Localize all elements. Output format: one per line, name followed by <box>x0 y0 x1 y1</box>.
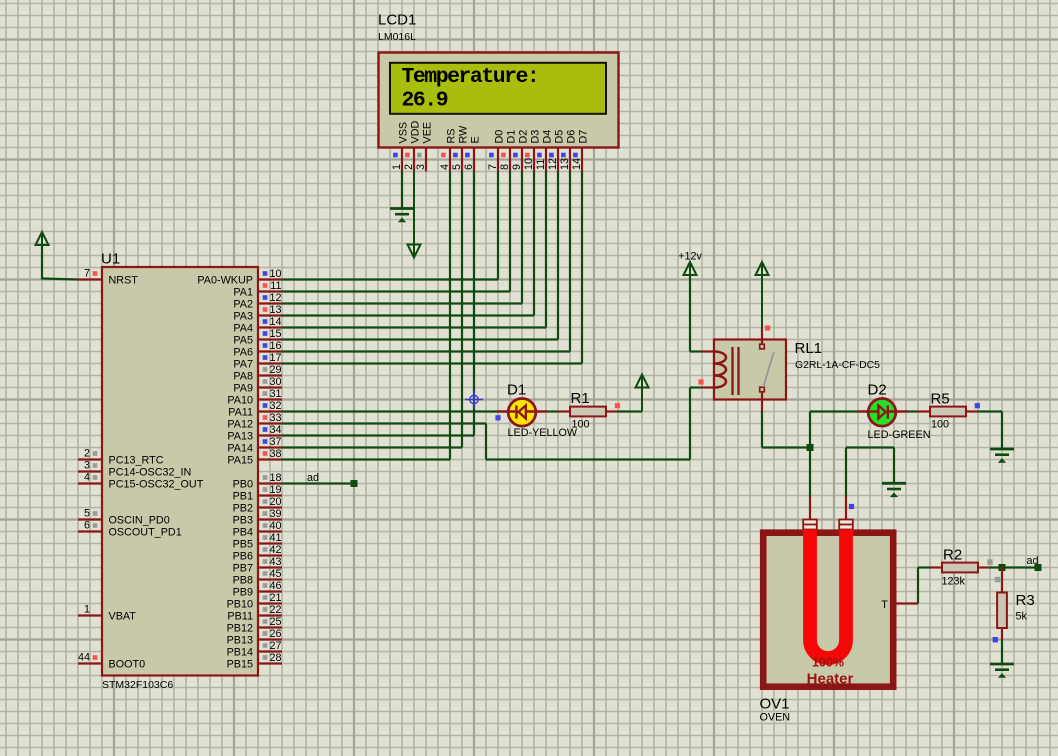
svg-text:1: 1 <box>391 164 403 170</box>
U1 pin 7 state square <box>93 271 98 276</box>
svg-text:PA6: PA6 <box>233 347 253 359</box>
U1 pin 18 state square <box>263 475 268 480</box>
LCD pin stub 7 <box>497 148 499 172</box>
svg-text:D1: D1 <box>505 130 517 144</box>
svg-text:29: 29 <box>269 364 281 376</box>
svg-text:R5: R5 <box>931 391 950 408</box>
svg-text:PA12: PA12 <box>227 419 253 431</box>
wire LCD RS to PA15 <box>449 172 451 460</box>
U1 pin 2 state square <box>93 451 98 456</box>
svg-text:PB7: PB7 <box>233 563 253 575</box>
U1 pin stub 18 (PB0) <box>258 482 282 484</box>
svg-text:VSS: VSS <box>397 122 409 144</box>
U1 pin 22 state square <box>263 607 268 612</box>
LCD pin 8 state square <box>501 153 506 158</box>
svg-text:17: 17 <box>269 352 281 364</box>
power terminal (NRST) <box>41 233 43 280</box>
svg-text:+12v: +12v <box>678 251 702 263</box>
svg-text:40: 40 <box>269 520 281 532</box>
svg-text:13: 13 <box>269 304 281 316</box>
R2 state squares <box>987 559 992 564</box>
LCD pin 2 state square <box>405 153 410 158</box>
svg-text:OV1: OV1 <box>760 696 790 713</box>
svg-text:19: 19 <box>269 484 281 496</box>
power terminal +12v <box>689 263 691 352</box>
U1 pin 6 state square <box>93 523 98 528</box>
svg-text:PA0-WKUP: PA0-WKUP <box>197 275 253 287</box>
svg-text:D5: D5 <box>553 130 565 144</box>
svg-text:14: 14 <box>269 316 281 328</box>
svg-text:5: 5 <box>84 508 90 520</box>
svg-text:PA4: PA4 <box>233 323 253 335</box>
junction dot <box>807 444 814 451</box>
LED D1 <box>508 399 536 427</box>
LCD pin stub 13 <box>569 148 571 172</box>
origin marker <box>465 391 483 409</box>
LCD pin stub 1 <box>401 148 403 172</box>
LCD pin 6 state square <box>465 153 470 158</box>
RL1 switch top pin <box>761 328 763 345</box>
svg-text:18: 18 <box>269 472 281 484</box>
U1 pin 4 state square <box>93 475 98 480</box>
svg-text:R3: R3 <box>1016 592 1035 609</box>
svg-text:27: 27 <box>269 640 281 652</box>
U1 pin 26 state square <box>263 631 268 636</box>
U1 pin stub 7 (NRST) <box>78 278 102 280</box>
svg-text:D0: D0 <box>493 130 505 144</box>
U1 pin stub 17 (PA7) <box>258 362 282 364</box>
svg-text:21: 21 <box>269 592 281 604</box>
resistor R5 <box>918 410 930 412</box>
svg-text:LCD1: LCD1 <box>378 12 416 29</box>
svg-text:D4: D4 <box>541 130 553 144</box>
svg-text:OVEN: OVEN <box>760 712 791 724</box>
U1 pin stub 25 (PB12) <box>258 626 282 628</box>
U1 pin 19 state square <box>263 487 268 492</box>
microcontroller U1 body <box>102 267 258 676</box>
svg-text:7: 7 <box>84 268 90 280</box>
relay RL1 body <box>714 340 786 400</box>
wire R1 to power <box>618 410 642 412</box>
U1 pin stub 10 (PA0-WKUP) <box>258 278 282 280</box>
U1 pin stub 16 (PA6) <box>258 350 282 352</box>
svg-text:VDD: VDD <box>409 121 421 144</box>
RL1 switch lever <box>763 352 774 387</box>
svg-text:4: 4 <box>439 164 451 170</box>
ground (oven pin 2) <box>882 482 906 485</box>
U1 pin stub 44 (BOOT0) <box>78 662 102 664</box>
wire PB0 to ad terminal <box>282 482 354 484</box>
LCD pin stub 6 <box>473 148 475 172</box>
svg-text:100: 100 <box>931 419 949 431</box>
LCD pin stub 14 <box>581 148 583 172</box>
U1 pin stub 13 (PA3) <box>258 314 282 316</box>
svg-text:3: 3 <box>84 460 90 472</box>
U1 pin 39 state square <box>263 511 268 516</box>
svg-text:38: 38 <box>269 448 281 460</box>
svg-text:16: 16 <box>269 340 281 352</box>
U1 pin 41 state square <box>263 535 268 540</box>
U1 pin stub 30 (PA9) <box>258 386 282 388</box>
svg-text:PA13: PA13 <box>227 431 253 443</box>
svg-text:ad: ad <box>307 472 319 484</box>
U1 pin stub 42 (PB6) <box>258 554 282 556</box>
svg-text:5: 5 <box>451 164 463 170</box>
svg-text:PB6: PB6 <box>233 551 253 563</box>
svg-text:PB13: PB13 <box>227 635 253 647</box>
RL1 switch bottom pin <box>761 392 763 412</box>
U1 pin stub 11 (PA1) <box>258 290 282 292</box>
svg-text:PB3: PB3 <box>233 515 253 527</box>
svg-text:10: 10 <box>269 268 281 280</box>
R5 state square <box>975 403 980 408</box>
RL1 coil pin stubs <box>702 350 715 352</box>
RL1 switch top state square <box>765 325 770 330</box>
oven OV1 pins <box>809 497 811 520</box>
svg-text:8: 8 <box>499 164 511 170</box>
svg-text:7: 7 <box>487 164 499 170</box>
svg-text:2: 2 <box>403 164 415 170</box>
U1 pin 29 state square <box>263 367 268 372</box>
ground (R5) <box>990 448 1014 451</box>
power terminal (R1) <box>641 376 643 412</box>
svg-text:BOOT0: BOOT0 <box>109 659 146 671</box>
U1 pin stub 31 (PA10) <box>258 398 282 400</box>
wire LCD D5 to PA5 <box>557 172 559 340</box>
svg-text:D1: D1 <box>507 382 526 399</box>
LCD pin 11 state square <box>537 153 542 158</box>
wire +12v to relay coil <box>689 274 691 352</box>
U1 pin 11 state square <box>263 283 268 288</box>
U1 pin 32 state square <box>263 403 268 408</box>
svg-text:31: 31 <box>269 388 281 400</box>
U1 pin stub 40 (PB4) <box>258 530 282 532</box>
U1 pin 10 state square <box>263 271 268 276</box>
U1 pin 27 state square <box>263 643 268 648</box>
U1 pin 42 state square <box>263 547 268 552</box>
svg-text:PB12: PB12 <box>227 623 253 635</box>
U1 pin stub 12 (PA2) <box>258 302 282 304</box>
svg-text:22: 22 <box>269 604 281 616</box>
oven OV1 body <box>763 533 893 687</box>
U1 pin 25 state square <box>263 619 268 624</box>
wire R3 to ground <box>1001 640 1003 663</box>
svg-text:STM32F103C6: STM32F103C6 <box>102 679 173 691</box>
ground (R3) <box>990 663 1014 666</box>
svg-text:D2: D2 <box>868 382 887 399</box>
wire PA11 to D1 <box>282 410 498 412</box>
U1 pin 33 state square <box>263 415 268 420</box>
svg-text:RS: RS <box>445 129 457 144</box>
LCD pin stub 5 <box>461 148 463 172</box>
U1 pin 30 state square <box>263 379 268 384</box>
svg-text:1: 1 <box>84 604 90 616</box>
wire LCD D1 to PA1 <box>509 172 511 292</box>
terminal ad (PB0) <box>351 480 358 487</box>
svg-text:PB15: PB15 <box>227 659 253 671</box>
svg-text:OSCOUT_PD1: OSCOUT_PD1 <box>109 527 182 539</box>
svg-text:123k: 123k <box>942 576 966 588</box>
svg-text:25: 25 <box>269 616 281 628</box>
U1 pin 28 state square <box>263 655 268 660</box>
U1 pin stub 33 (PA12) <box>258 422 282 424</box>
svg-text:PB10: PB10 <box>227 599 253 611</box>
svg-text:PA7: PA7 <box>233 359 253 371</box>
LCD pin 10 state square <box>525 153 530 158</box>
svg-text:26: 26 <box>269 628 281 640</box>
U1 pin stub 15 (PA5) <box>258 338 282 340</box>
LCD pin stub 11 <box>545 148 547 172</box>
power terminal down (LCD VDD) <box>413 172 415 257</box>
svg-text:NRST: NRST <box>109 275 139 287</box>
U1 pin 31 state square <box>263 391 268 396</box>
wire LCD D2 to PA2 <box>521 172 523 304</box>
junction dot (R2/R3) <box>999 564 1006 571</box>
svg-text:VBAT: VBAT <box>109 611 137 623</box>
svg-text:42: 42 <box>269 544 281 556</box>
svg-text:11: 11 <box>535 159 547 170</box>
svg-text:20: 20 <box>269 496 281 508</box>
U1 pin 45 state square <box>263 571 268 576</box>
svg-text:PB1: PB1 <box>233 491 253 503</box>
LCD pin 4 state square <box>441 153 446 158</box>
U1 pin stub 3 (PC14-OSC32_IN) <box>78 470 102 472</box>
svg-text:44: 44 <box>78 652 90 664</box>
svg-text:PA1: PA1 <box>233 287 253 299</box>
svg-text:LED-YELLOW: LED-YELLOW <box>508 427 578 439</box>
wire LCD D6 to PA6 <box>569 172 571 352</box>
svg-text:ad: ad <box>1027 555 1039 567</box>
wire to LED D2 <box>810 410 858 412</box>
ground (LCD VSS) <box>390 207 414 210</box>
svg-text:PA5: PA5 <box>233 335 253 347</box>
U1 pin 40 state square <box>263 523 268 528</box>
U1 pin stub 6 (OSCOUT_PD1) <box>78 530 102 532</box>
U1 pin 46 state square <box>263 583 268 588</box>
U1 pin stub 14 (PA4) <box>258 326 282 328</box>
svg-text:12: 12 <box>269 292 281 304</box>
svg-text:41: 41 <box>269 532 281 544</box>
wire LCD RW to PA14 <box>461 172 463 448</box>
svg-text:10: 10 <box>523 158 535 170</box>
wire NRST <box>42 279 78 280</box>
svg-text:PB11: PB11 <box>227 611 253 623</box>
D1 anode state square <box>495 415 500 420</box>
U1 pin 20 state square <box>263 499 268 504</box>
svg-text:PB4: PB4 <box>233 527 253 539</box>
RL1 switch contacts <box>760 344 765 349</box>
svg-text:PA10: PA10 <box>227 395 253 407</box>
U1 pin 38 state square <box>263 451 268 456</box>
U1 pin 14 state square <box>263 319 268 324</box>
U1 pin stub 21 (PB10) <box>258 602 282 604</box>
LCD pin 7 state square <box>489 153 494 158</box>
svg-text:PB0: PB0 <box>233 479 253 491</box>
LCD pin stub 12 <box>557 148 559 172</box>
wire D1 to R1 <box>547 410 558 412</box>
RL1 coil- state square <box>698 379 703 384</box>
wire LCD D0 to PA0 <box>497 172 499 280</box>
svg-text:PA15: PA15 <box>227 455 253 467</box>
U1 pin 21 state square <box>263 595 268 600</box>
svg-text:Heater: Heater <box>807 671 854 688</box>
svg-text:T: T <box>881 599 888 611</box>
power terminal (relay switch) <box>761 263 763 328</box>
RL1 core lines <box>731 347 733 395</box>
U1 pin stub 46 (PB9) <box>258 590 282 592</box>
svg-text:3: 3 <box>415 164 427 170</box>
oven heater element <box>810 530 846 659</box>
U1 pin stub 1 (VBAT) <box>78 614 102 616</box>
LCD pin stub 3 <box>425 148 427 172</box>
U1 pin stub 37 (PA14) <box>258 446 282 448</box>
svg-text:6: 6 <box>84 520 90 532</box>
svg-text:OSCIN_PD0: OSCIN_PD0 <box>109 515 170 527</box>
resistor R1 <box>558 410 570 412</box>
svg-text:D2: D2 <box>517 130 529 144</box>
svg-text:LM016L: LM016L <box>378 31 416 43</box>
LCD pin 9 state square <box>513 153 518 158</box>
svg-text:PA2: PA2 <box>233 299 253 311</box>
svg-text:PA8: PA8 <box>233 371 253 383</box>
U1 pin stub 19 (PB1) <box>258 494 282 496</box>
U1 pin stub 4 (PC15-OSC32_OUT) <box>78 482 102 484</box>
svg-text:PA14: PA14 <box>227 443 253 455</box>
oven pin 2 state square <box>849 504 854 509</box>
svg-text:Temperature:: Temperature: <box>402 65 539 89</box>
svg-text:VEE: VEE <box>421 122 433 144</box>
LCD pin 13 state square <box>561 153 566 158</box>
U1 pin stub 2 (PC13_RTC) <box>78 458 102 460</box>
U1 pin 12 state square <box>263 295 268 300</box>
R3 state square <box>993 637 998 642</box>
U1 pin 15 state square <box>263 331 268 336</box>
svg-text:LED-GREEN: LED-GREEN <box>868 429 931 441</box>
wire LCD D3 to PA3 <box>533 172 535 316</box>
U1 pin 3 state square <box>93 463 98 468</box>
svg-text:4: 4 <box>84 472 90 484</box>
U1 pin stub 34 (PA13) <box>258 434 282 436</box>
U1 pin stub 38 (PA15) <box>258 458 282 460</box>
svg-text:R1: R1 <box>571 390 590 407</box>
svg-text:100%: 100% <box>812 656 844 670</box>
U1 pin 37 state square <box>263 439 268 444</box>
LCD pin stub 9 <box>521 148 523 172</box>
svg-text:14: 14 <box>571 158 583 170</box>
svg-text:D3: D3 <box>529 130 541 144</box>
svg-text:U1: U1 <box>101 251 120 268</box>
svg-text:13: 13 <box>559 158 571 170</box>
svg-text:15: 15 <box>269 328 281 340</box>
LCD pin stub 2 <box>413 148 415 172</box>
U1 pin stub 5 (OSCIN_PD0) <box>78 518 102 520</box>
svg-text:32: 32 <box>269 400 281 412</box>
wire LCD VSS down <box>401 172 403 208</box>
U1 pin 13 state square <box>263 307 268 312</box>
wire D2 to R5 <box>908 410 919 412</box>
svg-text:PC15-OSC32_OUT: PC15-OSC32_OUT <box>109 479 204 491</box>
U1 pin stub 20 (PB2) <box>258 506 282 508</box>
U1 pin stub 45 (PB8) <box>258 578 282 580</box>
U1 pin 43 state square <box>263 559 268 564</box>
svg-text:RL1: RL1 <box>795 340 823 357</box>
oven T pin stub <box>896 602 918 604</box>
wire junction down to oven pin 1 <box>809 448 811 497</box>
svg-text:43: 43 <box>269 556 281 568</box>
svg-text:PC14-OSC32_IN: PC14-OSC32_IN <box>109 467 192 479</box>
svg-text:5k: 5k <box>1016 611 1028 623</box>
oven OV1 terminal bushings <box>803 520 817 530</box>
svg-text:RW: RW <box>457 125 469 144</box>
wire LCD D7 to PA7 <box>581 172 583 364</box>
LCD pin 5 state square <box>453 153 458 158</box>
svg-text:2: 2 <box>84 448 90 460</box>
svg-text:PB5: PB5 <box>233 539 253 551</box>
U1 pin 17 state square <box>263 355 268 360</box>
wire oven pin 2 to ground <box>845 448 847 497</box>
svg-text:PB14: PB14 <box>227 647 253 659</box>
U1 pin stub 32 (PA11) <box>258 410 282 412</box>
wire LCD E to PA13 <box>473 172 475 436</box>
svg-text:33: 33 <box>269 412 281 424</box>
svg-text:6: 6 <box>463 164 475 170</box>
LCD pin 12 state square <box>549 153 554 158</box>
U1 pin stub 22 (PB11) <box>258 614 282 616</box>
svg-text:26.9: 26.9 <box>402 89 448 113</box>
wire junction up to D2 row <box>809 412 811 448</box>
svg-text:12: 12 <box>547 158 559 170</box>
svg-text:PA11: PA11 <box>228 407 253 419</box>
svg-text:37: 37 <box>269 436 281 448</box>
svg-text:46: 46 <box>269 580 281 592</box>
LCD pin 14 state square <box>573 153 578 158</box>
svg-text:PB9: PB9 <box>233 587 253 599</box>
resistor R2 <box>930 566 942 568</box>
svg-text:PA9: PA9 <box>233 383 253 395</box>
svg-text:D6: D6 <box>565 130 577 144</box>
RL1 coil <box>715 352 727 388</box>
U1 pin 5 state square <box>93 511 98 516</box>
wire PA12 to relay coil <box>282 422 486 424</box>
U1 pin stub 27 (PB14) <box>258 650 282 652</box>
U1 pin stub 39 (PB3) <box>258 518 282 520</box>
U1 pin 44 state square <box>93 655 98 660</box>
svg-text:PC13_RTC: PC13_RTC <box>109 455 164 467</box>
svg-text:9: 9 <box>511 164 523 170</box>
wire T pin to R2 <box>917 568 919 604</box>
U1 pin stub 29 (PA8) <box>258 374 282 376</box>
R1 state square <box>615 403 620 408</box>
svg-text:R2: R2 <box>943 547 962 564</box>
svg-text:G2RL-1A-CF-DC5: G2RL-1A-CF-DC5 <box>795 360 880 371</box>
LCD LCD1 body <box>379 53 619 148</box>
svg-text:34: 34 <box>269 424 281 436</box>
LCD pin stub 4 <box>449 148 451 172</box>
LCD screen <box>390 63 606 114</box>
svg-text:100: 100 <box>572 419 590 431</box>
U1 pin 34 state square <box>263 427 268 432</box>
svg-text:45: 45 <box>269 568 281 580</box>
wire R5 to ground <box>978 410 1002 412</box>
U1 pin stub 26 (PB13) <box>258 638 282 640</box>
svg-text:PA3: PA3 <box>233 311 253 323</box>
LCD pin 1 state square <box>393 153 398 158</box>
svg-text:PB2: PB2 <box>233 503 253 515</box>
wire LCD D4 to PA4 <box>545 172 547 328</box>
wire R2 to ad terminal <box>990 566 1038 568</box>
svg-text:PB8: PB8 <box>233 575 253 587</box>
LCD pin stub 8 <box>509 148 511 172</box>
